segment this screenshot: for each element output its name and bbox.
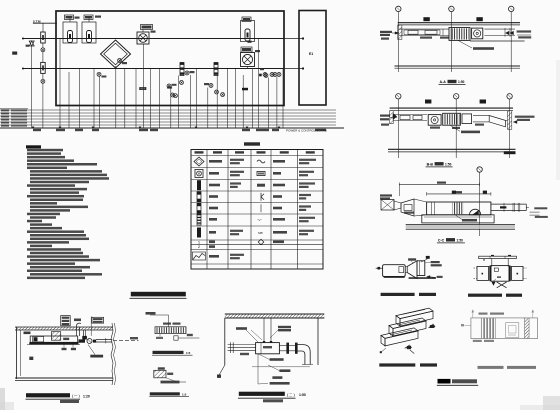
svg-text:E1: E1: [309, 52, 313, 56]
svg-text:SPF: SPF: [258, 231, 263, 235]
svg-text:1:50: 1:50: [299, 393, 306, 397]
svg-text:2: 2: [198, 245, 200, 249]
svg-text:1: 1: [198, 240, 200, 244]
svg-text:1:50: 1:50: [458, 80, 465, 84]
svg-text:C-C: C-C: [438, 238, 445, 242]
svg-text:1:50: 1:50: [445, 162, 452, 166]
svg-text:S.T.M: S.T.M: [33, 19, 41, 23]
svg-text:1:5: 1:5: [182, 392, 187, 396]
svg-text:A-A: A-A: [440, 80, 447, 84]
svg-text:1:20: 1:20: [83, 394, 90, 398]
svg-text:POWER & CONTROL BOARD: POWER & CONTROL BOARD: [286, 128, 328, 132]
svg-text:1:50: 1:50: [457, 238, 464, 242]
svg-text:1:5: 1:5: [186, 351, 191, 355]
svg-text:B-B: B-B: [427, 162, 434, 166]
